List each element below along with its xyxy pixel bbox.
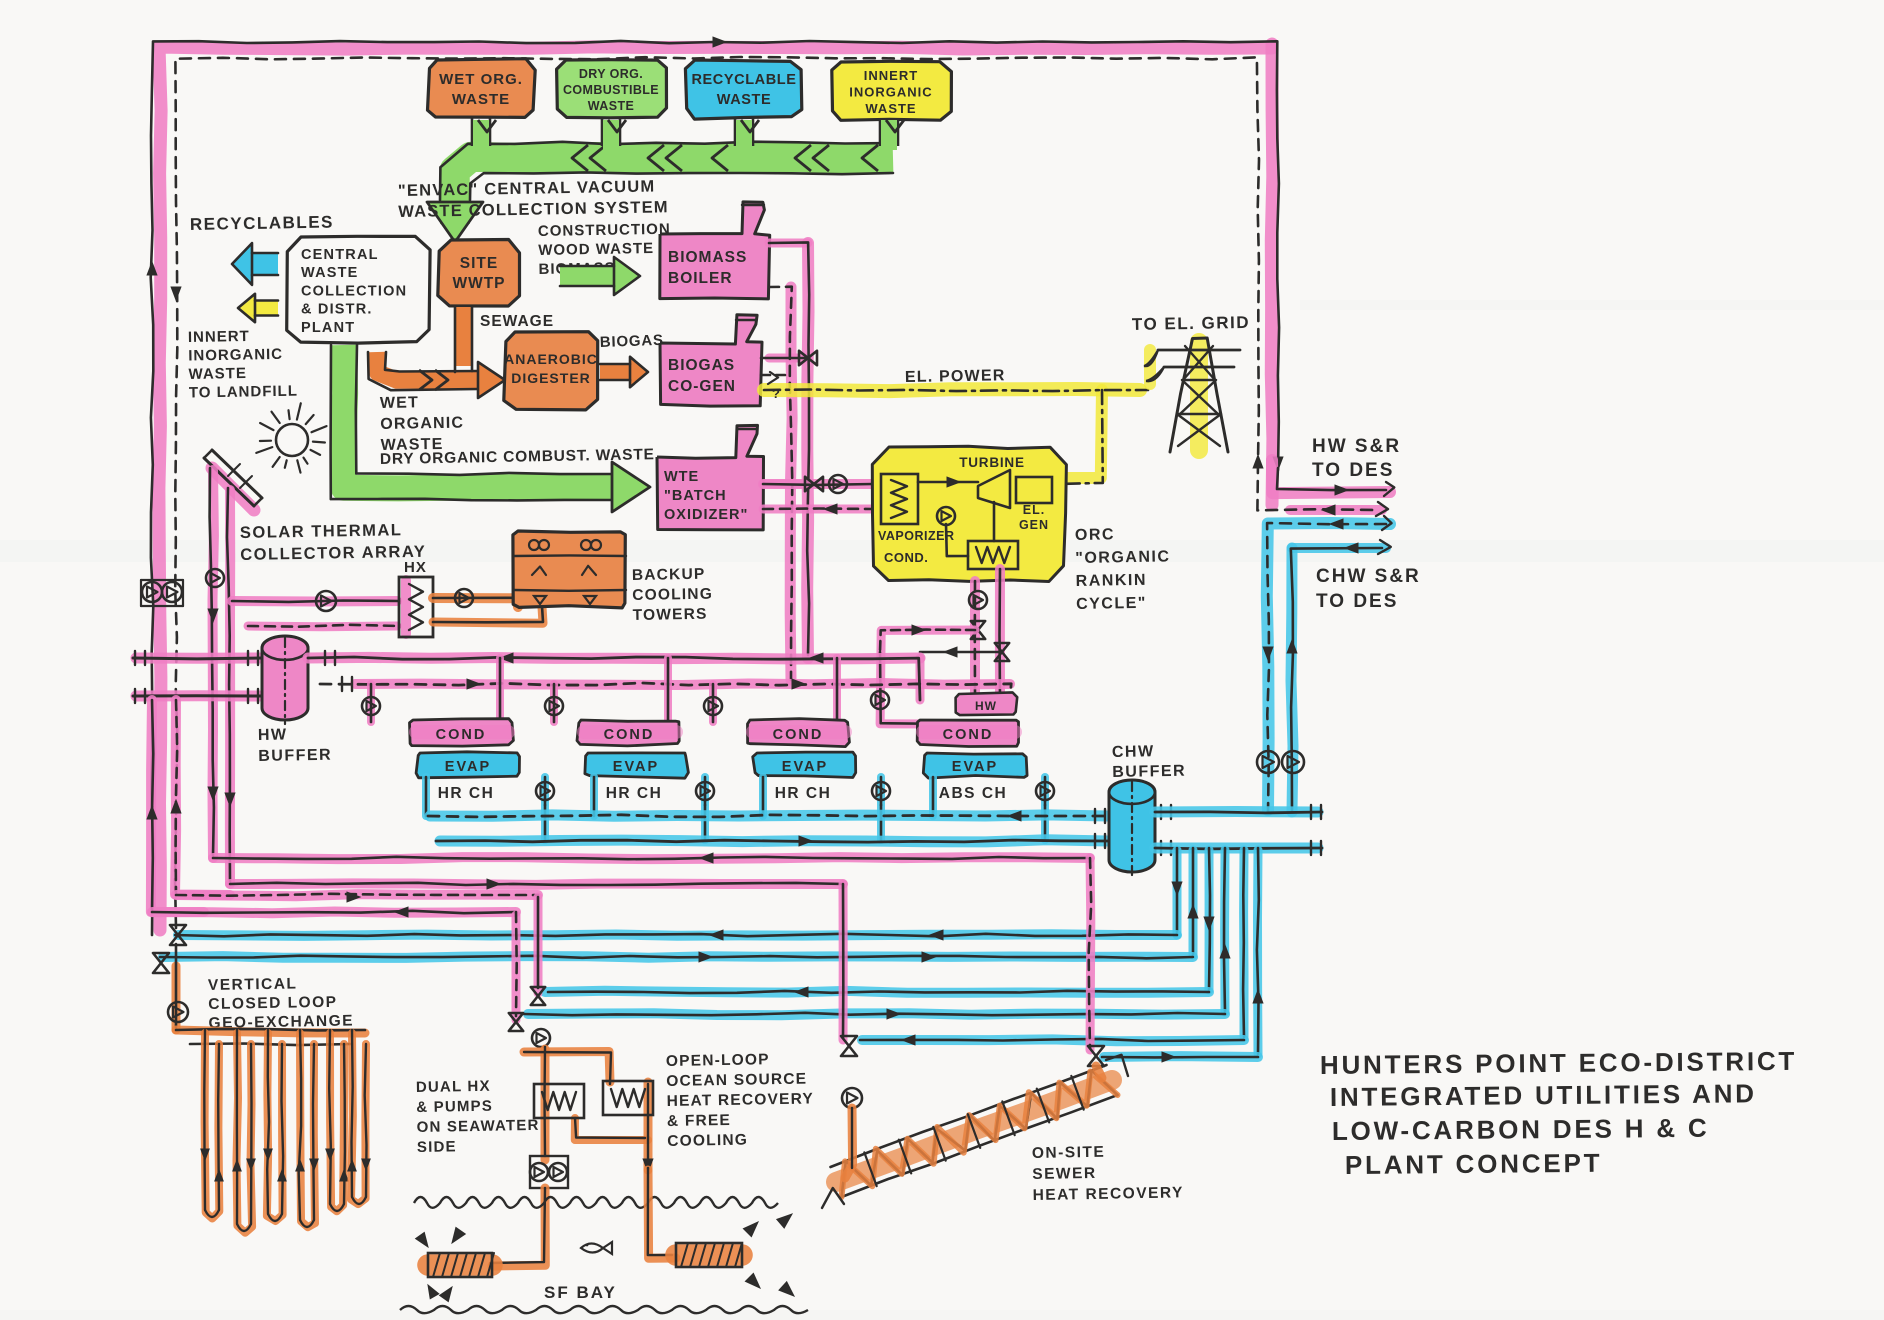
wire: sewer drop west [842, 884, 845, 1038]
pipe: sewer drop west (pink) [839, 884, 848, 1040]
svg-text:ANAEROBIC: ANAEROBIC [504, 351, 598, 367]
wire: boiler return header (dashed) [769, 287, 792, 680]
svg-text:& PUMPS: & PUMPS [416, 1098, 493, 1116]
arrow: HW supply to DES [1335, 485, 1348, 495]
wire: chiller 3 evap stubs [763, 777, 881, 840]
pipe: CHW mains east of buffer (cyan) [1155, 812, 1318, 849]
vessel: CHW buffer tank (cyan cylinder) [1109, 780, 1155, 876]
svg-text:EVAP: EVAP [952, 759, 998, 775]
wire: west riser 1 [152, 700, 153, 912]
label: ORC organic rankin cycle [1075, 525, 1172, 613]
box: innert inorganic waste (yellow) [832, 61, 952, 120]
svg-text:WTE: WTE [664, 469, 699, 485]
wire: HW loop return line (dashed ink) [175, 57, 1259, 928]
svg-text:CHW: CHW [1112, 743, 1155, 761]
wire: biogas co-gen return tie (dashed) [761, 374, 791, 377]
svg-text:EVAP: EVAP [445, 759, 491, 775]
svg-text:BIOGAS: BIOGAS [668, 357, 735, 374]
svg-text:WASTE: WASTE [452, 91, 510, 108]
valve: WTE supply valve [805, 477, 823, 491]
flange: west main 1 end [135, 651, 145, 665]
wire: CHW return main dashed [428, 815, 1108, 817]
svg-text:SOLAR THERMAL: SOLAR THERMAL [240, 521, 403, 542]
wire: HW dist H2 [230, 879, 843, 889]
valve: dual HX valve 1 [531, 987, 545, 1005]
symbol: solar thermal collector panel [204, 450, 262, 510]
pump: chiller 2 HW pump [545, 697, 563, 715]
svg-text:GEN: GEN [1019, 518, 1049, 532]
box: seawater pump station [530, 1156, 568, 1188]
wire: distribution pair3 top [860, 1035, 1244, 1045]
label: title line 1 [1320, 1046, 1797, 1080]
pipe: solar HX loop (pink) [232, 601, 397, 627]
label: BIOGAS [600, 332, 665, 351]
box: seawater HX 1 [534, 1084, 584, 1118]
wire: chiller 3 cond feed stub [713, 658, 837, 722]
svg-text:BUFFER: BUFFER [1112, 763, 1186, 781]
svg-text:LOW-CARBON DES H & C: LOW-CARBON DES H & C [1332, 1113, 1710, 1146]
pipe: HW S&R to DES stub (pink) [1272, 460, 1390, 510]
label: chiller 4 COND [943, 727, 994, 743]
pump: west loop pump B [162, 582, 182, 602]
pipe: CHW mains (cyan) [430, 815, 1108, 842]
box: ORC condenser [968, 541, 1018, 569]
wire: WTE return line (dashed) [763, 507, 873, 510]
wire: ORC internal vapor line [918, 477, 978, 487]
svg-text:BUFFER: BUFFER [258, 747, 332, 765]
valve: ORC loop valve 2 [995, 643, 1009, 661]
wire: seawater loop ink [524, 1047, 648, 1165]
label: OPEN-LOOP OCEAN SOURCE HEAT RECOVERY & FREE COOLING [666, 1050, 815, 1150]
svg-text:SIDE: SIDE [417, 1138, 457, 1156]
svg-text:WASTE: WASTE [188, 365, 247, 383]
box: chiller 4 evaporator (cyan) [923, 753, 1027, 778]
box: site WWTP (orange) [438, 240, 520, 307]
pipe: CHW distribution pair1 (cyan) [163, 934, 1193, 958]
wire: orc el gen dash-dot [1058, 390, 1103, 484]
pipe: HW dist H1 (pink) [213, 857, 1090, 859]
box: backup cooling towers (orange) [513, 531, 626, 608]
label: VERTICAL CLOSED LOOP GEO-EXCHANGE [208, 974, 354, 1032]
wire: HX loop return dashed [248, 625, 399, 627]
label: title line 2 [1330, 1078, 1757, 1112]
svg-text:WWTP: WWTP [452, 275, 505, 292]
svg-text:OPEN-LOOP: OPEN-LOOP [666, 1051, 770, 1070]
pipe: sewer riser east (pink) [1086, 858, 1096, 1050]
svg-text:DUAL HX: DUAL HX [416, 1078, 491, 1096]
valve: ORC loop valve 1 [971, 621, 985, 639]
squiggle: HW stub breaks [1376, 482, 1394, 516]
valve: geo valve 1 [170, 925, 186, 945]
flange: CHW buffer left [1095, 809, 1105, 848]
svg-text:INORGANIC: INORGANIC [188, 346, 283, 365]
symbol: seawater intake screen [428, 1253, 494, 1277]
label: EL. POWER [905, 367, 1006, 386]
box: biogas co-gen (pink) [660, 315, 762, 406]
arrow: west risers up [147, 800, 181, 819]
symbol: sun [256, 403, 326, 472]
wire: HW dist H1 [213, 853, 1090, 863]
pump: CHW distribution pump B [1282, 751, 1304, 773]
wire: distribution pair1 top [175, 930, 1177, 940]
svg-text:SEWER: SEWER [1032, 1165, 1097, 1183]
symbol: sea bottom waves [400, 1306, 808, 1313]
label: HW S&R TO DES [1312, 436, 1401, 481]
box: ORC organic rankin cycle (yellow) [872, 446, 1066, 581]
label: CHW S&R TO DES [1316, 566, 1421, 612]
pipe: district HW loop right border (pink highlighter) [1271, 44, 1273, 505]
box: dry organic combustible waste (green) [557, 60, 667, 118]
pump: ABS loop pump [871, 691, 889, 709]
svg-text:WOOD WASTE: WOOD WASTE [538, 240, 654, 259]
wire: envac trunk outline [440, 142, 893, 200]
squiggle: CHW stub breaks [1378, 516, 1392, 554]
svg-text:HUNTERS POINT ECO-DISTRICT: HUNTERS POINT ECO-DISTRICT [1320, 1046, 1797, 1080]
arrow: trunk chevron 2 [648, 145, 682, 171]
pipe: sewage down from WWTP (orange) [455, 307, 472, 366]
pipe: west HW mains (pink) [136, 658, 262, 696]
label: BIOGAS CO-GEN [668, 357, 736, 395]
pipe: innert box stub to trunk [880, 118, 904, 150]
arrow: outfall flow arrows [743, 1214, 794, 1296]
box: biomass boiler (pink) [660, 202, 770, 299]
svg-text:INORGANIC: INORGANIC [849, 85, 932, 100]
pipe: CHW drop riser 1 (cyan) [1172, 848, 1182, 935]
wire: biomass boiler supply tie [769, 242, 809, 655]
svg-text:HEAT RECOVERY: HEAT RECOVERY [666, 1090, 814, 1110]
svg-text:"ORGANIC: "ORGANIC [1075, 548, 1170, 567]
svg-text:HX: HX [404, 559, 427, 576]
label: chiller 3 EVAP [782, 759, 828, 775]
arrow: CHW return from DES [1330, 519, 1343, 529]
label: CHW BUFFER [1112, 743, 1187, 781]
wire: distribution pair2 top [548, 987, 1209, 997]
arrow: trunk chevron 1 [572, 145, 606, 171]
label: HW BUFFER [258, 726, 333, 765]
pipe: HX to towers loop (orange) [433, 598, 543, 623]
arrow: HW return from DES [1322, 505, 1335, 515]
pipe: ORC condenser to ABS chiller (pink) [975, 569, 1000, 700]
label: RECYCLABLE WASTE [691, 72, 796, 108]
wire: HW dist H4 [152, 907, 516, 917]
svg-text:OCEAN SOURCE: OCEAN SOURCE [666, 1071, 807, 1090]
box: ORC vaporizer [881, 474, 918, 524]
svg-text:CENTRAL: CENTRAL [301, 247, 379, 263]
label: TO EL. GRID [1132, 313, 1251, 334]
svg-text:RECYCLABLES: RECYCLABLES [190, 212, 334, 234]
svg-text:COOLING: COOLING [667, 1132, 748, 1150]
svg-text:PLANT: PLANT [301, 320, 355, 336]
box: central waste collection and distr plant (white) [287, 236, 430, 343]
wire: ORC cond supply down [998, 569, 1001, 698]
arrow: CHW riser up [1287, 640, 1297, 653]
wire: CHW east main 1 [1155, 812, 1322, 813]
box: chiller 3 condenser (pink) [748, 719, 850, 747]
arrow: CHW supply to DES [1345, 543, 1358, 553]
label: TURBINE [959, 455, 1025, 470]
arrow: main A flow left [500, 653, 823, 663]
wire: distribution pair2 bottom [524, 1009, 1225, 1019]
wire: HW return stub from DES [1257, 462, 1378, 510]
pump: chiller 3 HW pump [704, 697, 722, 715]
svg-text:WASTE: WASTE [865, 101, 916, 116]
svg-text:VAPORIZER: VAPORIZER [878, 529, 955, 543]
svg-text:COOLING: COOLING [632, 586, 713, 604]
symbol: vertical closed loop geo-exchange field [176, 1029, 370, 1233]
arrow: main B flow right [467, 679, 805, 689]
pump: chiller 1 CHW pump [536, 782, 554, 800]
wire: west HW main 2 [133, 694, 262, 697]
svg-text:SEWAGE: SEWAGE [480, 313, 554, 330]
svg-text:HEAT RECOVERY: HEAT RECOVERY [1033, 1184, 1185, 1204]
pump: solar loop pump [206, 569, 224, 587]
wire: chiller 1 cond feed stub [371, 658, 500, 722]
pipe: sewer coil connections (orange) [845, 1066, 1102, 1178]
label: DUAL HX & PUMPS ON SEAWATER SIDE [416, 1077, 540, 1156]
wire: sewer riser east dashed [1089, 858, 1092, 1048]
pipe: HW dist H4 (pink) [152, 912, 516, 914]
pipe: CHW riser pair (cyan highlighter) [1267, 523, 1390, 812]
wire: HW main B dashed [320, 683, 1011, 698]
pipe: dual HX drop pair (pink) [516, 897, 538, 1020]
svg-text:COND: COND [773, 727, 824, 743]
pipe: envac collection trunk (green band) [455, 157, 893, 224]
symbol: seawater outfall diffuser [676, 1243, 742, 1267]
wire: chiller 4 evap stubs [933, 777, 1045, 840]
pump: CHW distribution pump A [1257, 751, 1279, 773]
label: chiller 4 EVAP [952, 759, 998, 775]
wire: dual HX drop solid [537, 897, 540, 988]
label: WET ORGANIC WASTE [380, 394, 465, 454]
wire: solar riser return [227, 488, 230, 882]
svg-text:COLLECTOR ARRAY: COLLECTOR ARRAY [240, 543, 426, 564]
arrow: CHW supply flow [799, 836, 812, 846]
svg-text:DIGESTER: DIGESTER [511, 370, 591, 386]
svg-text:HW: HW [258, 726, 288, 744]
pump: seawater pump A [530, 1163, 548, 1181]
wire: ORC internal cond line [946, 502, 994, 556]
svg-text:& FREE: & FREE [667, 1112, 731, 1130]
arrow: right border dashed up [1253, 455, 1263, 468]
pipe: geo exchange feed (orange) [172, 944, 181, 1030]
wire: CHW supply main [436, 840, 1108, 842]
svg-text:INTEGRATED UTILITIES AND: INTEGRATED UTILITIES AND [1330, 1078, 1757, 1112]
svg-text:COND.: COND. [884, 550, 928, 565]
wire: CHW east main 2 [1155, 847, 1322, 851]
box: seawater HX 2 [603, 1081, 653, 1115]
arrow: biogas to co-gen (orange) [600, 357, 648, 387]
pump: west loop pump A [142, 582, 162, 602]
svg-text:COND: COND [943, 727, 994, 743]
svg-text:WASTE: WASTE [717, 92, 772, 108]
svg-text:WASTE: WASTE [301, 265, 359, 281]
svg-text:CO-GEN: CO-GEN [668, 378, 736, 395]
pipe: ABS chiller HW left loop (pink) [880, 630, 975, 724]
wire: west pump header box [141, 580, 183, 606]
pipe: seawater outfall (orange) [648, 1168, 676, 1258]
wire: WTE supply line to ORC [763, 484, 873, 509]
valve: biogas header valve [799, 351, 817, 365]
arrow: top border flow right [713, 37, 726, 47]
label: chiller 1 type [438, 785, 495, 802]
svg-text:EVAP: EVAP [613, 759, 659, 775]
wire: west riser 2 dashed [176, 700, 178, 895]
wire: dual HX drop dashed [515, 912, 518, 1016]
arrow: solar risers down [208, 787, 235, 806]
label: DRY ORGANIC COMBUST. WASTE [380, 446, 655, 468]
pump: chiller 3 CHW pump [872, 782, 890, 800]
pump: ORC loop pump [969, 591, 987, 609]
wire: HX loop supply [232, 601, 399, 602]
svg-text:BACKUP: BACKUP [632, 566, 706, 584]
pump: chiller 4 CHW pump [1036, 782, 1054, 800]
wire: ORC cond return up (dashed) [973, 581, 976, 694]
label: BACKUP COOLING TOWERS [632, 566, 714, 624]
pump: ORC feed pump [937, 507, 955, 525]
svg-text:HW: HW [975, 699, 997, 713]
label: WET ORG. WASTE [439, 71, 523, 108]
label: COND. [884, 550, 928, 565]
wire: el power dash-dot [764, 390, 1148, 392]
flange: west main 2 end [135, 689, 145, 703]
box: chiller 2 evaporator (cyan) [585, 753, 689, 778]
svg-text:& DISTR.: & DISTR. [301, 302, 373, 318]
symbol: on-site sewer heat recovery coil [822, 1055, 1128, 1208]
arrow: WTE return arrow [824, 504, 837, 514]
label: HX [404, 559, 427, 576]
box: wet organic waste (orange) [428, 59, 536, 118]
label: ANAEROBIC DIGESTER [504, 351, 598, 386]
pipe: HW dist H3 (pink) [176, 894, 538, 896]
wire: chiller 2 cond feed stub [554, 658, 668, 722]
arrow: construction wood waste to biomass boiler (green) [560, 257, 640, 295]
svg-text:WET: WET [380, 394, 419, 412]
svg-text:CONSTRUCTION: CONSTRUCTION [538, 221, 671, 240]
arrow: innert inorganic out (yellow) [238, 294, 278, 322]
svg-text:EL. POWER: EL. POWER [905, 367, 1006, 386]
box: recyclable waste (cyan) [685, 60, 801, 119]
svg-text:ORC: ORC [1075, 526, 1115, 544]
svg-text:TOWERS: TOWERS [632, 606, 707, 624]
wire: ABS loop solid mid [920, 647, 1000, 657]
svg-text:TO DES: TO DES [1312, 460, 1394, 481]
wire: distribution pair1 bottom [160, 952, 1193, 962]
box: solar heat exchanger HX [399, 577, 433, 637]
valve: dual HX valve 2 [509, 1013, 523, 1031]
svg-text:ORGANIC: ORGANIC [380, 415, 464, 433]
label: INNERT INORGANIC WASTE [849, 68, 932, 116]
svg-text:COMBUSTIBLE: COMBUSTIBLE [563, 83, 659, 97]
svg-text:WASTE: WASTE [588, 99, 634, 113]
arrow: wet organic chevron [419, 370, 448, 390]
pipe: seawater HX loop (orange) [524, 1049, 648, 1170]
wire: distribution pair3 bottom [1102, 1052, 1258, 1062]
pipe: dry organic combust waste duct (green elbow) [344, 345, 612, 488]
svg-text:BOILER: BOILER [668, 270, 733, 287]
arrow: CHW return flow [1008, 811, 1021, 821]
label: chiller 2 EVAP [613, 759, 659, 775]
svg-text:BIOMASS: BIOMASS [668, 249, 747, 266]
label: BIOMASS BOILER [668, 249, 747, 287]
svg-text:?: ? [772, 386, 781, 401]
svg-text:VERTICAL: VERTICAL [208, 975, 298, 994]
wire: biogas co-gen supply tie [761, 357, 808, 360]
box: chiller 1 condenser (pink) [410, 719, 514, 746]
pipe: HW supply main east (pink) [308, 657, 1010, 685]
flange: buffer right [325, 651, 352, 691]
pipe: CHW drop riser 5 (cyan) [1239, 848, 1249, 1037]
pump: HX loop pump [316, 591, 336, 611]
label: DRY ORG. COMBUSTIBLE WASTE [563, 67, 659, 113]
arrow: right border down [1273, 457, 1283, 470]
arrow: trunk chevron 4 [795, 145, 829, 171]
svg-text:ON-SITE: ON-SITE [1032, 1144, 1106, 1162]
svg-text:TO LANDFILL: TO LANDFILL [189, 383, 298, 402]
svg-text:PLANT CONCEPT: PLANT CONCEPT [1345, 1148, 1603, 1180]
svg-text:ABS CH: ABS CH [939, 785, 1007, 802]
wire: CHW supply riser (solid) [1291, 548, 1382, 812]
svg-text:CYCLE": CYCLE" [1076, 595, 1147, 613]
pipe: CHW distribution pair2 (cyan) [528, 991, 1225, 1015]
pipe: recyclable box stub to trunk [735, 118, 759, 150]
svg-text:DRY ORG.: DRY ORG. [579, 67, 643, 81]
pump: dual HX pump [532, 1029, 550, 1047]
svg-text:OXIDIZER": OXIDIZER" [664, 507, 748, 523]
box: chiller 4 condenser (pink) [917, 720, 1018, 747]
box: WTE batch oxidizer (pink) [657, 425, 764, 530]
label: chiller 2 type [606, 785, 663, 802]
label: ENVAC central vacuum system [398, 177, 669, 221]
flange: buffer left 1 [248, 651, 258, 665]
label: chiller 2 COND [604, 727, 655, 743]
svg-text:INNERT: INNERT [864, 68, 918, 83]
symbol: transmission tower to grid [1144, 338, 1240, 452]
svg-text:HR CH: HR CH [438, 785, 495, 802]
arrow: trunk chevron 5 [862, 145, 878, 171]
pipe: el power line (yellow highlighter) [764, 389, 1140, 478]
pipe: HW dist header west verticals (pink) [151, 700, 230, 912]
wire: HX-tower supply [433, 598, 519, 606]
symbol: fish [581, 1242, 612, 1254]
pump: WTE supply pump [829, 475, 847, 493]
symbol: ORC turbine [978, 470, 1010, 508]
svg-text:INNERT: INNERT [188, 328, 250, 346]
label: SF BAY [544, 1283, 617, 1302]
svg-text:RANKIN: RANKIN [1076, 572, 1148, 590]
wire: CHW return riser (dashed) [1267, 523, 1386, 812]
label: SITE WWTP [452, 255, 505, 292]
box: anaerobic digester (orange) [504, 332, 598, 410]
label: VAPORIZER [878, 529, 955, 543]
pipe: dry org box stub to trunk [602, 118, 626, 150]
pump: seawater pump B [549, 1163, 567, 1181]
pipe: CHW distribution pair3 (cyan) [862, 1039, 1258, 1057]
box: chiller 3 evaporator (cyan) [753, 752, 856, 777]
wire: HW main A solid [308, 657, 920, 700]
wire: sewage pipe outlines [368, 307, 478, 390]
pump: sewer pump [842, 1088, 862, 1108]
pump: tower loop pump [455, 589, 473, 607]
wire: green elbow outline [331, 345, 612, 500]
arrow: recyclables out (cyan) [232, 243, 278, 285]
label: SOLAR THERMAL COLLECTOR ARRAY [240, 521, 427, 564]
label: innert inorganic waste to landfill [188, 327, 298, 401]
squiggle: gen connection biogas [768, 372, 781, 401]
wire: west HW main 1 [133, 657, 262, 661]
wire: solar riser supply [210, 468, 214, 856]
svg-text:ON SEAWATER: ON SEAWATER [416, 1117, 539, 1136]
pipe: boiler HW headers (pink highlighter) [763, 243, 809, 680]
